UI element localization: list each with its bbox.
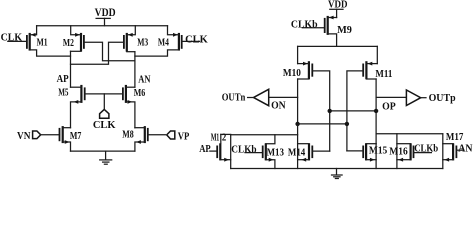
buffer OUTn (inverter pointing left) [222, 89, 298, 111]
VDD supply symbol (left) [95, 7, 116, 26]
wire right drain line (M16/M17 drains) [376, 133, 443, 135]
svg-text:M10: M10 [283, 68, 301, 79]
wire bottom ground rail (right) [231, 168, 443, 170]
transistor M13 (NMOS clocked, gate left) [263, 135, 284, 169]
transistor M2 (PMOS, gate right, cross-coupled) [63, 26, 84, 52]
wire M10 gate riser [312, 71, 329, 151]
transistor M15 (NMOS latch, gate left) [347, 143, 387, 168]
wire ON cross link [298, 123, 347, 125]
node ON vertical wire [297, 79, 299, 124]
svg-text:AP: AP [199, 144, 211, 155]
wire M9 drain rail [298, 45, 378, 47]
VDD supply symbol (right) [328, 0, 348, 18]
wire M5/M6 common gate [85, 93, 123, 95]
transistor M12 (NMOS, gate left) [211, 133, 231, 169]
svg-text:M16: M16 [389, 147, 407, 158]
svg-text:M2: M2 [63, 38, 74, 49]
port VN [17, 131, 60, 142]
svg-text:AN: AN [138, 75, 151, 86]
node CLKb (bottom left label) [231, 144, 262, 155]
node CLKb (top label) [291, 19, 325, 30]
wire rail to M10 source [297, 46, 299, 63]
node CLKb (bottom right label) [414, 144, 439, 155]
junction dot OP [374, 109, 378, 113]
transistor M11 (PMOS latch, gate left) [363, 61, 392, 80]
node AN [135, 52, 151, 87]
svg-text:M3: M3 [137, 38, 148, 49]
svg-text:1: 1 [216, 133, 219, 144]
svg-text:ON: ON [271, 101, 286, 112]
svg-text:M14: M14 [288, 148, 305, 159]
wire rail to M11 source [376, 46, 378, 63]
wire source rail of M7/M8 [71, 150, 135, 152]
ground (right) [332, 169, 343, 179]
junction dot M11 gate [345, 122, 349, 126]
svg-text:M6: M6 [134, 88, 146, 99]
ground (left) [100, 151, 112, 164]
transistor M4 (PMOS, gate right) [135, 26, 182, 56]
svg-text:M4: M4 [158, 38, 169, 49]
node OP vertical wire [375, 79, 377, 144]
wire M11 gate riser [347, 71, 363, 151]
port CLK (tail clock input) [93, 94, 116, 131]
transistor M5 (NMOS, gate right) [58, 85, 84, 128]
port VP [148, 131, 190, 142]
svg-text:M15: M15 [369, 146, 387, 157]
node CLK (right label) [182, 35, 208, 46]
svg-text:CLKb: CLKb [231, 144, 257, 155]
transistor M7 (NMOS input, gate left) [60, 126, 82, 151]
wire M2 gate to node AN (cross-couple) [84, 42, 135, 60]
transistor M14 (NMOS latch, gate right) [288, 143, 330, 161]
wire left drain line (M12/M13 drains) [221, 133, 298, 135]
svg-text:M11: M11 [375, 69, 392, 80]
transistor M1 (PMOS, gate left) [27, 26, 71, 56]
transistor M16 (NMOS clocked, gate right) [389, 134, 413, 169]
transistor M8 (NMOS input, gate right) [122, 126, 148, 151]
transistor M10 (PMOS latch, gate right) [283, 61, 312, 79]
svg-text:VN: VN [17, 131, 31, 142]
transistor M9 (PMOS tail, gate left) [325, 16, 352, 47]
transistor M6 (NMOS, gate left) [123, 85, 145, 128]
svg-text:M9: M9 [337, 25, 352, 36]
port AN (second stage input) [456, 144, 473, 155]
svg-text:VDD: VDD [95, 7, 116, 19]
svg-text:OUTn: OUTn [222, 93, 246, 104]
wire ON lower vertical to M14 drain [297, 124, 299, 169]
svg-text:CLK: CLK [185, 35, 208, 46]
svg-text:2: 2 [222, 133, 226, 144]
junction dot M10 gate [328, 109, 332, 113]
buffer OUTp (inverter pointing right) [376, 90, 456, 113]
svg-text:VP: VP [178, 131, 190, 142]
transistor M3 (PMOS, gate left, cross-coupled) [124, 26, 148, 52]
svg-text:M1: M1 [37, 37, 48, 48]
wire VDD rail (left) [37, 25, 168, 27]
node AP [57, 51, 71, 87]
svg-text:OP: OP [382, 102, 396, 113]
node CLK (left label) [1, 32, 27, 43]
svg-text:CLK: CLK [93, 120, 116, 131]
svg-text:AN: AN [458, 144, 473, 155]
svg-text:M5: M5 [58, 88, 68, 99]
svg-text:M13: M13 [267, 148, 284, 159]
transistor M17 (NMOS, gate right) [443, 132, 464, 169]
svg-text:CLKb: CLKb [291, 19, 318, 30]
svg-text:AP: AP [57, 74, 69, 85]
svg-text:M17: M17 [446, 132, 464, 143]
svg-text:M7: M7 [70, 131, 82, 142]
wire M3 gate to node AP (cross-couple) [71, 42, 124, 64]
svg-text:OUTp: OUTp [429, 93, 456, 104]
svg-text:M8: M8 [122, 130, 134, 141]
port AP (second stage input) [199, 144, 217, 155]
junction dot ON-M12/M13/M14 [295, 122, 299, 126]
wire OP cross link [330, 110, 376, 112]
